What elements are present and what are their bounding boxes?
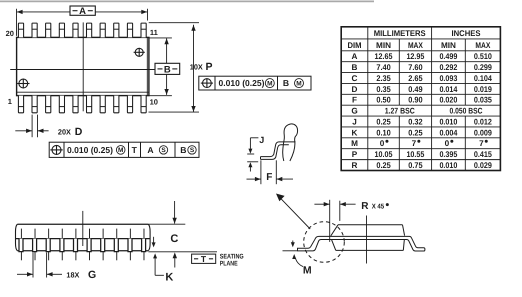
svg-text:G: G — [351, 107, 357, 116]
svg-text:0.093: 0.093 — [439, 74, 457, 83]
svg-text:10.05: 10.05 — [375, 150, 393, 159]
svg-text:0.035: 0.035 — [474, 96, 492, 105]
svg-text:20X: 20X — [58, 127, 71, 136]
svg-text:0.010: 0.010 — [439, 117, 457, 126]
svg-text:F: F — [266, 172, 272, 183]
dimension F — [247, 160, 294, 184]
svg-text:G: G — [88, 269, 96, 281]
svg-text:M: M — [296, 80, 301, 87]
datum target bottom-left — [17, 79, 29, 89]
svg-text:T: T — [201, 254, 207, 264]
svg-text:0.90: 0.90 — [408, 96, 423, 105]
svg-text:0.004: 0.004 — [439, 128, 457, 137]
dimension C — [148, 201, 185, 268]
svg-text:0.010 (0.25): 0.010 (0.25) — [67, 145, 113, 155]
svg-text:11: 11 — [150, 28, 158, 37]
bottom row pins (1..10) — [18, 96, 146, 113]
svg-text:F: F — [352, 96, 357, 105]
side view centerline — [82, 211, 84, 246]
svg-text:S: S — [161, 147, 166, 154]
svg-text:MAX: MAX — [475, 41, 490, 50]
svg-text:7.40: 7.40 — [376, 63, 391, 72]
svg-text:0.012: 0.012 — [474, 117, 492, 126]
page artifact: gray rule at top edge — [0, 0, 374, 2]
seating plane -T- — [148, 252, 243, 267]
svg-text:12.65: 12.65 — [375, 52, 393, 61]
svg-text:B: B — [352, 63, 358, 72]
svg-text:PLANE: PLANE — [220, 260, 238, 267]
dimension 10X P — [149, 23, 213, 112]
end view centerline — [366, 216, 368, 264]
side view body — [16, 224, 151, 251]
svg-text:7: 7 — [479, 139, 484, 148]
svg-text:2.35: 2.35 — [376, 74, 391, 83]
svg-text:M: M — [303, 265, 312, 277]
svg-text:0.014: 0.014 — [439, 85, 457, 94]
svg-text:B: B — [180, 145, 186, 155]
svg-text:C: C — [170, 233, 178, 245]
svg-text:1: 1 — [8, 97, 12, 106]
svg-text:D: D — [352, 85, 358, 94]
svg-text:0.25: 0.25 — [376, 161, 391, 170]
svg-text:0: 0 — [380, 139, 385, 148]
svg-text:0.029: 0.029 — [474, 161, 492, 170]
svg-text:P: P — [352, 150, 358, 159]
svg-text:R: R — [361, 201, 369, 212]
side view leads — [19, 229, 146, 261]
svg-text:MILLIMETERS: MILLIMETERS — [374, 29, 426, 38]
detail circle (dashed) — [304, 222, 345, 263]
svg-text:0.499: 0.499 — [439, 52, 457, 61]
dimension table — [341, 27, 500, 171]
svg-text:0.25: 0.25 — [408, 128, 423, 137]
svg-text:MIN: MIN — [376, 41, 391, 50]
svg-text:0.75: 0.75 — [408, 161, 423, 170]
svg-text:0.10: 0.10 — [376, 128, 391, 137]
dimension J — [247, 135, 264, 171]
svg-text:20: 20 — [6, 29, 14, 38]
svg-text:2.65: 2.65 — [408, 74, 423, 83]
dimension 18X G — [17, 253, 96, 282]
datum target top-right — [134, 48, 145, 57]
dimension K — [152, 237, 174, 284]
svg-text:0.010 (0.25): 0.010 (0.25) — [219, 78, 265, 88]
svg-text:M: M — [118, 147, 123, 154]
feature control frame (20X D): position 0.010 (0.25) M, T, A S, B S — [49, 142, 199, 157]
pin number 20 — [6, 29, 14, 38]
svg-text:10X: 10X — [190, 63, 203, 72]
svg-text:DIM: DIM — [348, 41, 362, 50]
svg-text:J: J — [352, 117, 357, 126]
svg-text:M: M — [267, 80, 272, 87]
svg-text:10.55: 10.55 — [406, 150, 424, 159]
pin number 11 — [150, 28, 158, 37]
svg-text:A: A — [352, 52, 358, 61]
vertical centerline of top view — [82, 22, 84, 111]
svg-text:0.35: 0.35 — [376, 85, 391, 94]
svg-text:0.50: 0.50 — [376, 96, 391, 105]
svg-text:0.020: 0.020 — [439, 96, 457, 105]
dimension M (foot angle) — [283, 241, 312, 277]
pin number 10 — [150, 97, 158, 106]
svg-text:10: 10 — [150, 97, 158, 106]
svg-text:S: S — [190, 147, 195, 154]
svg-text:M: M — [351, 139, 358, 148]
svg-text:R: R — [352, 161, 358, 170]
svg-text:18X: 18X — [66, 270, 79, 279]
svg-text:C: C — [352, 74, 358, 83]
svg-text:A: A — [79, 6, 86, 17]
end view gull-wing lead — [298, 236, 425, 251]
svg-text:0.009: 0.009 — [474, 128, 492, 137]
svg-text:0.415: 0.415 — [474, 150, 492, 159]
svg-text:X 45: X 45 — [372, 204, 385, 211]
svg-text:0.050 BSC: 0.050 BSC — [450, 107, 483, 116]
svg-text:MAX: MAX — [408, 41, 423, 50]
svg-text:K: K — [352, 128, 358, 137]
svg-text:SEATING: SEATING — [220, 253, 244, 260]
svg-text:A: A — [147, 145, 153, 155]
svg-text:B: B — [283, 78, 289, 88]
svg-text:B: B — [164, 65, 171, 76]
horizontal centerline of top view — [10, 69, 158, 71]
svg-text:1.27 BSC: 1.27 BSC — [385, 107, 415, 116]
svg-text:7: 7 — [412, 139, 417, 148]
svg-text:0.299: 0.299 — [474, 63, 492, 72]
feature control frame (10X P): position 0.010 (0.25) M, B M — [199, 76, 311, 90]
dimension -B- — [149, 38, 180, 96]
dimension R X 45 — [314, 200, 388, 242]
leader arrow from end view to lead detail — [276, 194, 310, 230]
svg-text:7.60: 7.60 — [408, 63, 423, 72]
svg-text:T: T — [132, 145, 138, 155]
svg-text:0.32: 0.32 — [408, 117, 423, 126]
svg-text:MIN: MIN — [441, 41, 456, 50]
svg-text:0.019: 0.019 — [474, 85, 492, 94]
svg-text:0.49: 0.49 — [408, 85, 423, 94]
lead detail profile — [261, 124, 298, 161]
svg-text:D: D — [75, 126, 83, 138]
svg-text:0.104: 0.104 — [474, 74, 492, 83]
svg-text:0.292: 0.292 — [439, 63, 457, 72]
top row pins (20..11) — [18, 23, 146, 37]
svg-text:P: P — [206, 61, 213, 73]
svg-text:K: K — [165, 272, 173, 284]
svg-text:0: 0 — [445, 139, 450, 148]
svg-text:0.395: 0.395 — [439, 150, 457, 159]
svg-text:INCHES: INCHES — [452, 29, 482, 38]
svg-text:0.010: 0.010 — [439, 161, 457, 170]
svg-text:0.510: 0.510 — [474, 52, 492, 61]
pin number 1 — [8, 97, 12, 106]
svg-text:J: J — [259, 135, 264, 145]
svg-text:12.95: 12.95 — [406, 52, 424, 61]
end view body — [331, 225, 405, 251]
top view package body — [17, 37, 149, 95]
dimension -A- — [17, 6, 148, 36]
dimension 20X D — [15, 115, 83, 138]
svg-text:0.25: 0.25 — [376, 117, 391, 126]
